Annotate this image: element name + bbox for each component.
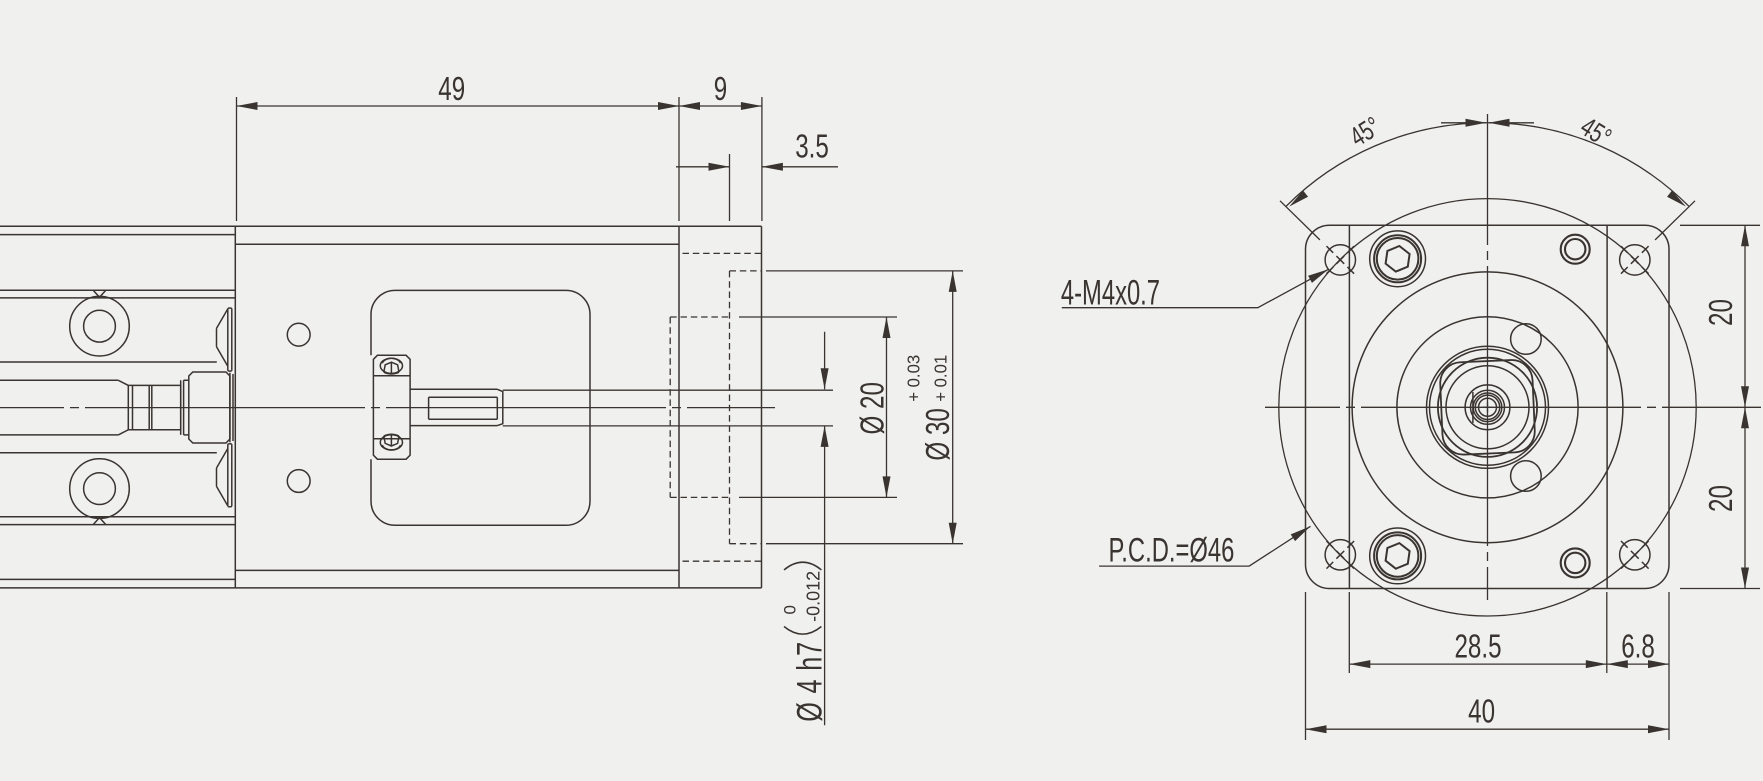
rail top inner line (0, 234, 235, 236)
arrows left view (237, 102, 258, 110)
M4 tapped holes with cross (1325, 245, 1650, 570)
bottom extension lines (1306, 592, 1670, 740)
roller circle bottom inner (84, 473, 116, 505)
flange square (1306, 225, 1670, 588)
svg-text:Ø 4 h7: Ø 4 h7 (791, 641, 830, 722)
screw shaft upper lines (0, 362, 217, 380)
clamp screw bottom (380, 435, 402, 450)
svg-text:Ø 30: Ø 30 (920, 408, 957, 460)
20/20 dim line (1744, 225, 1746, 588)
svg-text:+ 0.01: + 0.01 (930, 355, 951, 402)
small hole top on body (287, 323, 310, 346)
hub outer circles (1427, 346, 1549, 468)
centerline arrows for 45 (1466, 119, 1487, 127)
body left edge (234, 226, 236, 588)
roller circle bottom outer (70, 459, 130, 519)
rail slide lower lines (0, 517, 235, 525)
dim Ø20 line (886, 317, 888, 497)
svg-text:6.8: 6.8 (1621, 629, 1655, 666)
leader arrows (1308, 266, 1330, 283)
body inner top line (235, 243, 679, 245)
vertical center line (1487, 114, 1489, 600)
svg-text:40: 40 (1468, 694, 1495, 731)
hub rounded square (1439, 359, 1535, 455)
svg-text:-0.012: -0.012 (804, 571, 824, 622)
hex socket screws left (1370, 231, 1426, 584)
dim 28.5 line (1349, 663, 1607, 665)
svg-text:20: 20 (1703, 299, 1740, 326)
dim Ø30 line (952, 271, 954, 544)
small hole bottom on body (287, 470, 310, 493)
dim Ø4 leader line (824, 332, 826, 726)
40 arrows (1306, 725, 1327, 733)
dim text Ø30 with tolerance (903, 355, 957, 461)
small screws right (1561, 235, 1590, 578)
svg-text:49: 49 (438, 71, 465, 108)
shaft circles center (1465, 385, 1510, 430)
28.5 arrows (1349, 660, 1370, 668)
arrow tails on centerline (1441, 122, 1534, 124)
hidden counterbore (683, 253, 762, 561)
bore circle Ø20 (1397, 317, 1578, 498)
left bearing block (189, 372, 230, 443)
horizontal center line (1265, 406, 1761, 408)
svg-text:P.C.D.=Ø46: P.C.D.=Ø46 (1109, 531, 1235, 569)
leader 4-M4x0.7 (1062, 269, 1329, 307)
dim Ø30 extension lines (766, 271, 963, 544)
shaft clamp body (373, 355, 410, 459)
shaft flat (1472, 392, 1474, 423)
rail slide upper lines (0, 290, 235, 298)
svg-text:Ø 20: Ø 20 (855, 382, 892, 434)
dim 40 line (1306, 728, 1670, 730)
dim 3.5 line (676, 166, 838, 168)
hub inner circle (1446, 366, 1529, 449)
center line left view (0, 407, 775, 409)
clamp divider lines (373, 376, 410, 439)
output shaft rect (410, 389, 503, 425)
actuator body bottom outer edge (0, 587, 762, 589)
dim 49 extension lines (237, 97, 762, 221)
hidden bore Ø20 (670, 317, 729, 497)
roller circle top outer (70, 296, 130, 356)
6.8 arrows (1607, 660, 1628, 668)
slider plate rounded square (371, 290, 590, 525)
svg-text:3.5: 3.5 (795, 129, 829, 166)
text 20 top (1703, 299, 1740, 326)
countersunk screw top (217, 308, 232, 371)
shaft nut body (128, 385, 180, 429)
screw end thin lines (Ø4) (503, 390, 833, 426)
bearing block right face lines (230, 373, 233, 442)
45deg extension lines (1280, 201, 1695, 240)
screw shaft lower lines (0, 435, 217, 453)
coupling holes (1511, 324, 1542, 355)
rail bottom inner line (0, 578, 235, 580)
hub tangent circle (1438, 358, 1537, 457)
boss circle Ø30 (1352, 272, 1623, 543)
svg-text:+ 0.03: + 0.03 (903, 355, 924, 402)
nut inner verticals (133, 385, 152, 429)
svg-text:4-M4x0.7: 4-M4x0.7 (1061, 274, 1160, 313)
dim text Ø4 h7 (0/-0.012) (780, 571, 829, 722)
body inner bottom line (235, 569, 679, 571)
svg-text:9: 9 (714, 71, 727, 108)
centering notch top (94, 291, 106, 298)
nut right collar (181, 380, 189, 435)
motor body left edge (1348, 225, 1350, 588)
svg-text:0: 0 (780, 605, 799, 614)
dim text Ø20 (855, 382, 892, 434)
arc end arrows (1287, 190, 1308, 209)
svg-text:28.5: 28.5 (1454, 629, 1501, 666)
hidden boss Ø30 recess (730, 271, 762, 544)
text 20 bottom (1703, 485, 1740, 512)
clamp screw top (380, 358, 402, 373)
flange right edge (761, 226, 763, 588)
center lines right view (1265, 114, 1761, 600)
center cross (1483, 402, 1493, 412)
leader P.C.D. (1099, 526, 1310, 566)
shaft key slot (429, 397, 498, 419)
dim Ø20 extension lines (739, 317, 897, 497)
hidden lines (dashed) (670, 253, 761, 561)
dim 3.5 extension (729, 154, 731, 221)
20/20 arrows (1741, 225, 1749, 246)
svg-text:20: 20 (1703, 485, 1740, 512)
centering notch bottom (94, 518, 106, 525)
45deg arc (1286, 123, 1688, 206)
countersunk screw bottom (217, 444, 232, 507)
PCD circle Ø46 (1279, 199, 1696, 616)
shaft nut taper (118, 380, 128, 435)
body right edge (678, 226, 680, 588)
20/20 extension lines (1680, 225, 1760, 588)
motor body right edge (1606, 225, 1608, 588)
dim 6.8 line (1607, 663, 1669, 665)
actuator body top outer edge (0, 225, 762, 227)
dim 49/9 line (237, 105, 762, 107)
Ø4 tolerance parentheses (784, 562, 821, 634)
roller circle top inner (84, 310, 116, 342)
